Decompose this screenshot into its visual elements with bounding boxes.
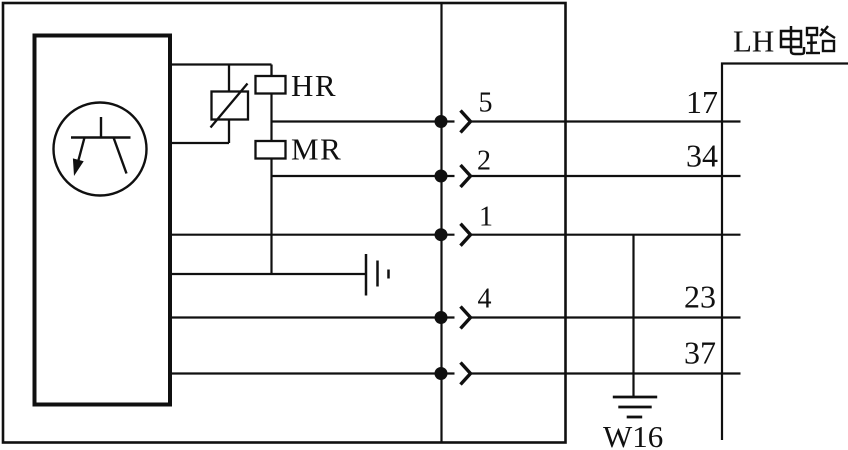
junction dot pin 1 xyxy=(435,228,448,241)
svg-text:17: 17 xyxy=(686,84,718,120)
wire: thermistor return to gauge box xyxy=(171,142,229,144)
connector pin 1 chevron xyxy=(461,224,471,246)
fuel gauge unit box xyxy=(35,36,171,405)
gauge meter symbol xyxy=(71,117,131,176)
wire: pin 4 to LH circuit (wire 23) xyxy=(471,316,741,318)
connector pin 4 chevron xyxy=(461,307,471,329)
junction dot bottom pin xyxy=(435,367,448,380)
junction dot pin 2 xyxy=(435,170,448,183)
hanzi dian (electric) of LH circuit label xyxy=(781,26,804,54)
junction dot pin 5 xyxy=(435,115,448,128)
resistor HR xyxy=(256,65,286,94)
resistor MR xyxy=(256,141,286,159)
wire: HR to MR link xyxy=(270,94,272,142)
svg-text:MR: MR xyxy=(291,132,342,167)
wire: gauge box to pin 4 xyxy=(171,316,455,318)
wire: bottom pin to LH circuit (wire 37) xyxy=(471,372,741,374)
svg-text:LH: LH xyxy=(733,24,774,59)
connector pin 2 chevron xyxy=(461,165,471,187)
svg-text:5: 5 xyxy=(479,88,493,119)
LH circuit bus corner line xyxy=(722,64,848,441)
wire: pin 1 to LH circuit xyxy=(471,234,741,236)
wire: pin 2 to LH circuit (wire 34) xyxy=(471,175,741,177)
wire: MR branch to pin 2 xyxy=(272,175,455,177)
junction dot pin 4 xyxy=(435,311,448,324)
wire: gauge box to internal ground xyxy=(171,273,366,275)
wire: pin 5 to LH circuit (wire 17) xyxy=(471,120,741,122)
svg-text:23: 23 xyxy=(684,279,716,315)
wire: gauge box to bottom pin xyxy=(171,372,455,374)
wire: gauge box to pin 1 xyxy=(171,234,455,236)
internal ground symbol xyxy=(366,254,389,296)
wire: W16 ground drop from pin 1 wire xyxy=(632,235,634,397)
svg-text:1: 1 xyxy=(479,202,493,233)
connector column line xyxy=(440,3,442,443)
svg-text:2: 2 xyxy=(477,146,491,177)
ground symbol W16 xyxy=(613,397,657,417)
svg-text:W16: W16 xyxy=(603,419,663,450)
gauge circle xyxy=(54,103,147,196)
svg-text:HR: HR xyxy=(291,68,337,103)
outer combination-meter box xyxy=(3,3,566,443)
svg-text:34: 34 xyxy=(686,138,718,174)
thermistor (temperature sender) xyxy=(211,65,249,144)
wire: gauge box to HR/thermistor (top) xyxy=(171,63,272,65)
wire: MR to internal ground wire xyxy=(270,159,272,275)
svg-text:37: 37 xyxy=(684,335,716,371)
connector pin 5 chevron xyxy=(461,111,471,133)
svg-text:4: 4 xyxy=(478,284,492,315)
hanzi lu (road/circuit) of LH circuit label xyxy=(806,26,835,53)
wire: HR/MR junction to pin 5 xyxy=(272,120,455,122)
connector bottom pin chevron xyxy=(461,363,471,385)
